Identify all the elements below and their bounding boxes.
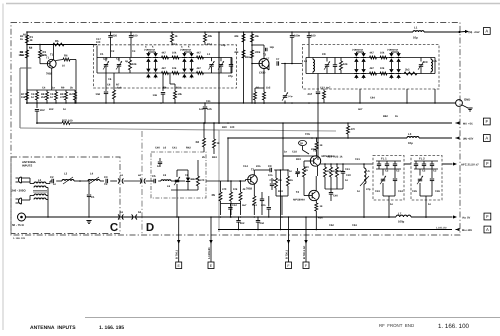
- connector pair C boundary (return): [118, 215, 119, 220]
- wire socket2 to L2: [22, 199, 31, 201]
- trimmer C12: [117, 64, 121, 66]
- svg-text:40k: 40k: [234, 35, 239, 38]
- capacitor C40 osc: [329, 192, 333, 194]
- svg-text:R19: R19: [296, 158, 301, 161]
- wire L3 to terminal: [419, 137, 452, 139]
- svg-text:1n: 1n: [284, 151, 287, 154]
- transistor T4 oscillator: [310, 156, 320, 166]
- svg-text:a1: a1: [120, 174, 123, 177]
- svg-text:AFC 21.5V ±7: AFC 21.5V ±7: [461, 162, 479, 166]
- svg-text:C18: C18: [292, 151, 297, 154]
- svg-text:1k5: 1k5: [266, 87, 271, 90]
- terminal arrow F bus: [456, 121, 460, 124]
- svg-text:C610: C610: [259, 72, 266, 75]
- svg-text:R27: R27: [62, 120, 67, 123]
- svg-text:1n5: 1n5: [153, 94, 158, 97]
- svg-text:L7: L7: [398, 212, 402, 216]
- svg-text:R30: R30: [222, 126, 227, 129]
- svg-text:6p8: 6p8: [117, 87, 122, 90]
- svg-text:4n7: 4n7: [358, 108, 363, 111]
- svg-text:R5: R5: [212, 194, 216, 197]
- svg-text:R13: R13: [172, 43, 177, 46]
- filter inductor L9: [161, 180, 171, 181]
- svg-text:1n: 1n: [157, 165, 160, 168]
- trimmer C10 out: [284, 63, 286, 65]
- svg-text:1n5: 1n5: [199, 108, 204, 111]
- capacitor C6 collector: [263, 47, 265, 50]
- svg-text:(+)BB204A: (+)BB204A: [387, 49, 399, 52]
- svg-text:47p: 47p: [366, 188, 371, 191]
- svg-text:T2: T2: [263, 54, 267, 57]
- wire feed to oscillator x318: [317, 103, 319, 160]
- svg-text:C8: C8: [322, 53, 326, 56]
- connector pair C boundary (signal): [118, 179, 119, 184]
- resistor R41 emitter: [253, 196, 256, 205]
- svg-text:R42: R42: [186, 147, 191, 150]
- filter top taps: [176, 170, 178, 174]
- terminal arrow A bus: [456, 136, 460, 139]
- svg-text:2k2: 2k2: [41, 96, 46, 99]
- antenna socket 1: [19, 177, 22, 183]
- varactor quad D4 BB204: [390, 52, 392, 53]
- page edge shading top: [6, 3, 500, 5]
- resistor R40 mixer: [240, 181, 242, 192]
- svg-text:100: 100: [311, 35, 316, 38]
- connector pair D boundary (signal): [140, 179, 141, 184]
- capacitor C23 below tuner2: [317, 74, 319, 92]
- svg-text:L6: L6: [167, 185, 171, 188]
- svg-text:10µ: 10µ: [413, 36, 418, 40]
- FL2 rails: [414, 168, 438, 170]
- svg-text:100: 100: [68, 120, 73, 123]
- ground symbol (right): [467, 107, 472, 109]
- svg-text:1.1305.80: 1.1305.80: [208, 247, 211, 259]
- inductor L6 variable: [62, 180, 74, 182]
- svg-text:TP: TP: [300, 141, 304, 145]
- svg-text:C3: C3: [104, 183, 108, 186]
- svg-text:R9: R9: [61, 87, 65, 90]
- filter output: [197, 160, 199, 172]
- svg-text:C7: C7: [266, 58, 270, 61]
- svg-text:4n7: 4n7: [326, 87, 331, 90]
- capacitor C2 (rail): [110, 32, 112, 35]
- svg-text:L4: L4: [90, 173, 94, 176]
- svg-text:10k: 10k: [172, 67, 177, 70]
- svg-text:B 730.1: B 730.1: [285, 249, 288, 259]
- wire emitter bias: [255, 87, 264, 89]
- capacitor C30 series: [51, 179, 53, 183]
- svg-text:F: F: [486, 161, 489, 166]
- FL2 top caps: [415, 161, 417, 164]
- svg-text:TP6: TP6: [305, 133, 310, 136]
- varactor quad D3 BB204: [355, 52, 357, 53]
- bus +15V lower (to A): [228, 137, 407, 139]
- svg-text:C9: C9: [268, 165, 272, 168]
- svg-text:C6: C6: [108, 78, 112, 81]
- FL2 cap2: [431, 169, 433, 178]
- capacitor C9 (rail): [308, 32, 310, 35]
- svg-text:10k: 10k: [132, 63, 137, 66]
- svg-text:k: k: [188, 46, 190, 49]
- filter trimmer C33: [175, 179, 179, 181]
- svg-text:C30: C30: [346, 174, 351, 177]
- svg-text:220: 220: [113, 35, 118, 38]
- filter input cap: [153, 179, 155, 183]
- bus +5V (to F): [37, 122, 62, 124]
- svg-text:a: a: [181, 46, 183, 49]
- svg-text:10µ: 10µ: [408, 141, 413, 145]
- connector A (mid): [483, 135, 490, 142]
- trimmer C20: [325, 64, 329, 66]
- svg-text:C53: C53: [352, 224, 357, 227]
- svg-text:T1: T1: [46, 57, 50, 60]
- bottom connector stub 1: [178, 217, 180, 262]
- svg-text:10k: 10k: [178, 93, 183, 96]
- bus +5V continued: [70, 122, 452, 124]
- svg-text:L5: L5: [163, 174, 167, 177]
- resistor R43: [287, 176, 290, 186]
- svg-text:C2: C2: [422, 170, 426, 173]
- tuner2 top rail: [306, 57, 435, 59]
- wire tuner2 right: [434, 58, 436, 74]
- svg-text:A: A: [485, 29, 488, 34]
- resistor R27 in bus: [62, 122, 70, 125]
- filter varactor D5: [186, 178, 190, 182]
- svg-text:100: 100: [133, 35, 138, 38]
- svg-text:2k: 2k: [202, 156, 205, 159]
- svg-text:D: D: [146, 222, 154, 234]
- svg-text:100k: 100k: [255, 51, 261, 54]
- svg-text:L1: L1: [207, 53, 211, 56]
- svg-text:L2: L2: [38, 179, 42, 182]
- svg-text:R1: R1: [23, 34, 27, 37]
- footer rule: [85, 317, 500, 319]
- bottom supply bus: [26, 216, 397, 218]
- svg-text:4u7: 4u7: [242, 204, 247, 207]
- svg-text:C3: C3: [132, 50, 136, 53]
- FL1 bottom rail: [383, 195, 395, 197]
- svg-text:1n: 1n: [345, 179, 348, 182]
- svg-text:C35: C35: [412, 190, 417, 193]
- transistor T2: [259, 59, 269, 69]
- svg-text:1n6: 1n6: [95, 93, 100, 96]
- wire T2 base: [252, 63, 259, 65]
- svg-text:2n2: 2n2: [260, 222, 265, 225]
- inductor L5 tank: [431, 60, 433, 72]
- svg-text:b1: b1: [120, 211, 124, 214]
- svg-text:R5: R5: [55, 40, 59, 43]
- svg-text:10k: 10k: [380, 67, 385, 70]
- FL1 cap2: [394, 169, 396, 178]
- svg-text:4p: 4p: [125, 60, 128, 63]
- tuner box 2 (dashed): [303, 45, 440, 90]
- resistor R16: [251, 34, 254, 42]
- wire collector supply: [282, 123, 284, 156]
- svg-text:1k: 1k: [20, 38, 23, 41]
- page edge shading left: [2, 4, 4, 331]
- ground bus (mid): [26, 102, 456, 104]
- svg-text:R16: R16: [245, 56, 250, 59]
- svg-text:10k: 10k: [172, 52, 177, 55]
- svg-text:C14: C14: [243, 165, 248, 168]
- test point TP: [299, 140, 307, 145]
- svg-text:1n: 1n: [29, 47, 32, 50]
- svg-text:4k7: 4k7: [370, 52, 375, 55]
- svg-text:C31: C31: [355, 158, 360, 161]
- resistor R49 collector: [316, 138, 318, 142]
- svg-text:10: 10: [62, 65, 65, 68]
- svg-text:C5: C5: [152, 175, 156, 178]
- svg-text:C4: C4: [42, 87, 46, 90]
- svg-text:FL 1: FL 1: [381, 157, 387, 161]
- svg-text:C6: C6: [107, 84, 111, 87]
- svg-text:C16: C16: [270, 179, 275, 182]
- svg-text:7958: 7958: [246, 188, 252, 191]
- svg-text:L3: L3: [64, 173, 68, 176]
- svg-text:1n: 1n: [52, 87, 55, 90]
- connector A (top): [483, 28, 490, 35]
- svg-text:R14: R14: [207, 43, 212, 46]
- resistor R18: [263, 88, 265, 92]
- coax socket 50-75: [18, 213, 26, 221]
- wire T3 base: [240, 180, 246, 182]
- resistor R21: [162, 72, 169, 75]
- svg-text:1k: 1k: [320, 144, 323, 147]
- capacitor C50 mixer row: [229, 204, 231, 207]
- svg-text:R20: R20: [304, 166, 309, 169]
- transistor T1: [47, 59, 56, 68]
- wire emitter feed: [70, 59, 76, 61]
- svg-text:C33: C33: [375, 190, 380, 193]
- capacitor C8 (rail): [291, 32, 293, 35]
- svg-text:C1: C1: [100, 53, 104, 56]
- svg-text:22p: 22p: [311, 148, 316, 151]
- wire osc interstage: [317, 165, 319, 176]
- svg-text:C12: C12: [232, 204, 237, 207]
- svg-text:T4: T4: [296, 191, 300, 194]
- svg-text:1k: 1k: [340, 156, 343, 159]
- filter FL2 box (dashed): [411, 156, 442, 201]
- capacitor C3 (rail): [130, 32, 132, 35]
- resistor R39 mixer: [230, 181, 232, 192]
- svg-text:470: 470: [351, 128, 356, 131]
- wire tank to bus: [363, 192, 365, 217]
- svg-text:C40: C40: [333, 195, 338, 198]
- svg-text:1n: 1n: [53, 183, 56, 186]
- resistor R22: [197, 56, 204, 59]
- svg-text:15k: 15k: [333, 170, 338, 173]
- capacitor C35 mixer: [229, 204, 231, 206]
- svg-text:22n: 22n: [261, 204, 266, 207]
- svg-text:A: A: [486, 227, 489, 232]
- connector pair D boundary (return): [132, 215, 133, 220]
- svg-text:C3: C3: [433, 170, 437, 173]
- svg-text:45k: 45k: [255, 35, 260, 38]
- svg-text:10p: 10p: [221, 44, 226, 47]
- svg-text:R6: R6: [64, 55, 68, 58]
- svg-text:2k2: 2k2: [405, 69, 410, 72]
- resistor R48 between buses: [347, 123, 349, 126]
- wire T3 collector chain: [253, 170, 255, 175]
- wire T1 collector: [52, 45, 54, 60]
- capacitor C32 shunt: [88, 181, 90, 194]
- wire collector takeoff: [283, 155, 317, 157]
- node line base supply: [27, 44, 97, 46]
- svg-text:C23: C23: [320, 87, 325, 90]
- trimmer C22: [419, 64, 423, 66]
- svg-text:L4: L4: [304, 60, 308, 63]
- svg-text:L1: L1: [414, 26, 418, 30]
- wire FL2 ground stub: [425, 204, 427, 217]
- svg-text:Vla 5V: Vla 5V: [462, 216, 471, 219]
- svg-text:C8: C8: [185, 174, 189, 177]
- resistor R23: [197, 72, 204, 75]
- shield enclosure (solid): [20, 67, 31, 69]
- svg-text:1. 166. 100: 1. 166. 100: [438, 323, 470, 330]
- svg-text:100µ: 100µ: [398, 220, 405, 224]
- wire L2 secondary: [46, 183, 50, 185]
- svg-text:C36: C36: [435, 190, 440, 193]
- resistor R3: [39, 50, 42, 58]
- capacitor C44 osc base: [297, 168, 299, 171]
- mixer bottom rail: [276, 195, 288, 197]
- svg-text:1n5: 1n5: [207, 108, 212, 111]
- svg-text:a2: a2: [138, 174, 141, 177]
- wire L7 to terminal F: [411, 216, 453, 218]
- inductor L7 100u: [396, 215, 411, 217]
- capacitor C51 mixer row: [268, 196, 270, 207]
- svg-text:C2: C2: [116, 58, 120, 61]
- wire tuner2 left: [305, 58, 307, 74]
- varactor quad D1 BB204: [147, 52, 149, 53]
- svg-text:1k: 1k: [395, 115, 398, 118]
- svg-text:40k: 40k: [208, 35, 213, 38]
- trimmer C14: [219, 64, 223, 66]
- svg-text:1k: 1k: [290, 179, 293, 182]
- wire divider rail A: [243, 32, 245, 103]
- outer board border (dash-dot): [11, 23, 460, 236]
- svg-text:2n2: 2n2: [49, 108, 54, 111]
- wire to +5 bus: [36, 116, 38, 123]
- resistor R2: [26, 50, 29, 58]
- svg-text:1k: 1k: [305, 169, 308, 172]
- svg-text:C2: C2: [111, 50, 115, 53]
- svg-text:1n: 1n: [357, 190, 360, 193]
- wire T2 collector: [263, 45, 265, 59]
- svg-text:1. 166. 195: 1. 166. 195: [13, 237, 26, 240]
- resistor R1: [26, 35, 29, 43]
- svg-text:470: 470: [200, 179, 205, 182]
- svg-text:1n: 1n: [428, 203, 431, 206]
- antenna input module border (dash-dot): [11, 157, 120, 234]
- svg-text:4k7: 4k7: [339, 170, 344, 173]
- resistor R14 (rail): [204, 32, 206, 34]
- resistor R46 osc: [330, 164, 332, 167]
- bottom connector stub 4: [305, 217, 307, 262]
- svg-text:C3: C3: [396, 170, 400, 173]
- svg-text:R22: R22: [334, 156, 339, 159]
- svg-text:L6: L6: [163, 147, 167, 150]
- svg-text:1n: 1n: [63, 108, 66, 111]
- osc emitter rail: [318, 163, 373, 165]
- capacitor C15: [229, 64, 233, 66]
- svg-text:100: 100: [96, 41, 101, 44]
- svg-text:B 705.1: B 705.1: [176, 249, 179, 259]
- svg-text:(+)BB204A: (+)BB204A: [144, 49, 156, 52]
- capacitor C52 chain: [271, 178, 273, 183]
- rail above bias resistors: [27, 89, 75, 91]
- resistor R31: [370, 56, 377, 59]
- svg-text:1k: 1k: [175, 35, 178, 38]
- svg-text:C41: C41: [172, 147, 177, 150]
- resistor R32: [370, 72, 377, 75]
- svg-text:470: 470: [222, 188, 227, 191]
- connector F (bottom): [484, 213, 491, 220]
- terminal arrow bottom F: [453, 215, 457, 218]
- tuner box 1 (dashed): [94, 45, 237, 88]
- svg-text:2n2: 2n2: [240, 222, 245, 225]
- svg-text:(+)BB204A: (+)BB204A: [352, 49, 364, 52]
- wire collector chain down: [279, 170, 281, 230]
- varactor quad D2 BB204: [183, 52, 185, 53]
- svg-text:1n: 1n: [390, 203, 393, 206]
- resistor R15: [242, 34, 245, 42]
- svg-text:C9: C9: [424, 61, 428, 64]
- tuner2 bottom rail: [306, 73, 435, 75]
- svg-text:1.166.102: 1.166.102: [436, 226, 447, 229]
- resistor R11: [65, 92, 68, 100]
- FL1 trimmer: [381, 178, 385, 180]
- svg-text:a: a: [145, 46, 147, 49]
- capacitor C21: [333, 64, 337, 66]
- svg-text:C40: C40: [155, 147, 160, 150]
- bottom connector stub 2: [210, 217, 212, 262]
- svg-text:MPS894A: MPS894A: [293, 199, 305, 202]
- resistor R10: [55, 92, 58, 100]
- svg-text:1. 166. 195: 1. 166. 195: [99, 325, 124, 331]
- svg-text:FL 2: FL 2: [419, 157, 425, 161]
- inductor L3 10u: [407, 137, 419, 139]
- svg-text:100: 100: [230, 126, 235, 129]
- svg-text:F: F: [486, 214, 489, 219]
- svg-text:k: k: [152, 46, 154, 49]
- svg-text:L5: L5: [367, 170, 371, 173]
- svg-text:GND: GND: [464, 98, 470, 102]
- filter FL1 box (dashed): [373, 156, 404, 201]
- ground symbol antenna: [86, 220, 91, 222]
- long vertical feed x219: [218, 32, 220, 123]
- inductor L10 osc tank: [364, 168, 366, 184]
- svg-text:4k7: 4k7: [69, 93, 74, 96]
- wire L6 junction: [74, 180, 88, 182]
- capacitor C16 below tuner1: [105, 73, 107, 91]
- wire tuner1 left: [96, 46, 98, 74]
- resistor R13 (rail): [171, 32, 173, 34]
- svg-text:4k7: 4k7: [162, 52, 167, 55]
- capacitor C36 mixer: [256, 220, 260, 222]
- svg-text:50 - 75 Ω: 50 - 75 Ω: [12, 223, 24, 227]
- svg-text:C2: C2: [385, 170, 389, 173]
- wire +15V top rail: [27, 31, 413, 33]
- svg-text:10k: 10k: [233, 188, 238, 191]
- wire tuner2 right tap down: [434, 89, 436, 103]
- svg-text:4k7: 4k7: [370, 67, 375, 70]
- wire tuner2 tap down: [406, 89, 408, 103]
- svg-text:(M) +15V: (M) +15V: [469, 31, 480, 34]
- svg-text:C34: C34: [398, 190, 403, 193]
- capacitor C37 emitter: [254, 197, 262, 199]
- svg-text:2n2: 2n2: [40, 109, 45, 112]
